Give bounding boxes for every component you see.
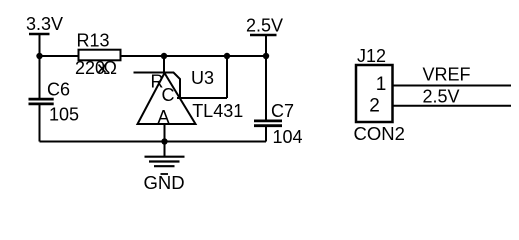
junction node 2.5V	[263, 53, 269, 59]
svg-text:C6: C6	[47, 80, 70, 100]
svg-text:105: 105	[49, 105, 79, 125]
svg-text:U3: U3	[191, 68, 214, 88]
reference bar of U3 TL431 with bend to cathode riser	[134, 73, 181, 99]
svg-text:1: 1	[376, 74, 387, 95]
transistor U3 TL431 triangle body	[138, 73, 196, 124]
ground bar 1	[145, 156, 185, 158]
wire cathode riser	[226, 56, 228, 98]
power port 2.5V bar	[250, 34, 277, 37]
svg-text:Ω: Ω	[104, 58, 117, 78]
svg-text:R13: R13	[77, 31, 110, 51]
wire C6 to bottom rail	[39, 104, 41, 142]
ground bar 2	[149, 160, 180, 162]
svg-text:3.3V: 3.3V	[26, 14, 63, 34]
svg-text:C: C	[162, 85, 175, 105]
wire U3 cathode stem from top rail	[163, 56, 165, 73]
junction node anode/GND	[161, 138, 167, 144]
svg-text:VREF: VREF	[423, 65, 471, 85]
wire anode stem	[164, 124, 166, 142]
svg-text:J12: J12	[357, 46, 386, 66]
connector J12 body	[356, 65, 393, 122]
wire top rail	[40, 55, 267, 57]
ground bar 3	[154, 165, 175, 167]
power port 3.3V bar	[29, 33, 50, 36]
capacitor C6 plates	[29, 99, 54, 104]
value x mark	[99, 65, 106, 73]
svg-text:A: A	[158, 107, 170, 127]
junction node above U3	[161, 53, 167, 59]
capacitor C7 plates	[254, 121, 282, 126]
wire bottom rail	[40, 141, 267, 143]
svg-text:TL431: TL431	[192, 101, 243, 121]
svg-text:104: 104	[273, 127, 303, 147]
wire 3.3V stem	[39, 34, 41, 56]
wire cathode lead	[177, 97, 227, 99]
svg-text:2.5V: 2.5V	[423, 87, 460, 107]
resistor R13 body	[79, 50, 121, 61]
wire pin 1	[393, 85, 512, 87]
svg-text:2: 2	[369, 96, 380, 117]
svg-text:CON2: CON2	[354, 123, 405, 144]
junction node at 3.3V	[36, 53, 42, 59]
svg-text:2.5V: 2.5V	[246, 16, 283, 36]
ground GND stem	[164, 142, 166, 157]
GND overbar on N	[161, 173, 169, 175]
wire 2.5V stem	[265, 35, 267, 56]
wire pin 2	[393, 105, 512, 107]
svg-text:C7: C7	[271, 101, 294, 121]
junction node cathode riser	[224, 53, 230, 59]
wire C7 to bottom rail	[265, 126, 267, 142]
svg-text:GND: GND	[144, 172, 185, 193]
wire top rail to C7	[265, 56, 267, 121]
wire left rail to C6	[39, 56, 41, 99]
